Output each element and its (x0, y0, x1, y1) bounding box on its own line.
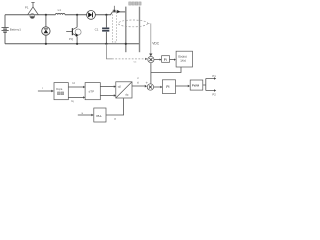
svg-text:PWM: PWM (192, 84, 200, 88)
inductor L1 (55, 13, 65, 14)
current sensor on dc link (113, 6, 120, 14)
inverter bus bar right (139, 7, 141, 53)
wire box2 to box3 top (100, 86, 114, 88)
block G(s) (176, 51, 192, 67)
svg-text:Battery1: Battery1 (10, 27, 22, 31)
capacitor C1 (102, 28, 109, 32)
wire VDC sense vertical (150, 23, 152, 54)
node junction bottom C1 branch (105, 43, 107, 45)
wire Pi to G (170, 59, 175, 61)
svg-text:C1: C1 (95, 27, 99, 31)
svg-text:dTP: dTP (89, 89, 95, 93)
wire diode branch lower (45, 35, 47, 44)
svg-text:P1: P1 (25, 5, 29, 9)
svg-text:αβ: αβ (118, 85, 122, 89)
wire C1 upper (105, 15, 107, 28)
node junction bottom transistor branch (76, 43, 78, 45)
wire lower sum to PI (154, 86, 161, 88)
block PWM (190, 80, 203, 90)
wire transistor emitter (76, 36, 78, 43)
dashed gate signal box (112, 10, 116, 42)
wire dc voltage feedback (106, 44, 112, 59)
arrowhead VDC (149, 54, 152, 57)
wire box1 to box2 bottom (68, 96, 84, 98)
wire PWM outputs (203, 79, 215, 91)
svg-text:1/(s): 1/(s) (180, 58, 186, 62)
svg-text:PI: PI (166, 85, 169, 89)
wire bottom rail (5, 43, 140, 45)
wire PLL output to box3 (106, 98, 124, 115)
block PLL (94, 108, 106, 122)
battery Battery1 (2, 28, 9, 32)
diode D1 in circle (42, 27, 50, 35)
node junction top diode branch (45, 14, 47, 16)
block Pi (162, 56, 170, 63)
node junction bottom bar (125, 43, 127, 45)
wire sum to Pi (154, 59, 160, 61)
svg-text:Dqra: Dqra (56, 87, 63, 91)
block filter (box2) (85, 83, 100, 100)
svg-text:VDC: VDC (152, 42, 160, 46)
svg-text:dq: dq (125, 92, 129, 96)
measurement ellipse (118, 20, 147, 27)
wire box1 to box2 top (68, 86, 84, 88)
wire diode branch upper (45, 15, 47, 27)
svg-text:L1: L1 (58, 8, 62, 12)
wire battery left verticals (4, 15, 6, 44)
svg-text:Pi: Pi (164, 58, 167, 62)
svg-text:PLL: PLL (97, 114, 103, 118)
node junction top transistor branch (76, 14, 78, 16)
svg-text:P2: P2 (212, 92, 216, 96)
wire box2 to box3 bottom (100, 95, 114, 97)
wire sum upper to sum lower (150, 63, 152, 84)
breaker P1 (28, 3, 39, 19)
wire top rail inductor to diode circle (65, 14, 87, 16)
diode D2 in circle inline (87, 11, 96, 20)
block park transform (box3) (116, 82, 132, 98)
wire top rail diode circle to step (96, 12, 126, 15)
node junction bottom diode branch (45, 43, 47, 45)
inverter bus bar left (125, 7, 127, 53)
wire box3 to lower sum (132, 85, 145, 87)
block PI (162, 80, 175, 94)
node junction top C1 branch (105, 14, 107, 16)
label three-phase grid (129, 2, 141, 5)
wire G feedback down-left (151, 67, 181, 73)
wire PLL input (78, 114, 92, 116)
wire top rail from battery to inductor (5, 14, 55, 16)
svg-text:P1: P1 (212, 74, 216, 78)
dashed link to VDC (148, 22, 151, 24)
block dq transform (box1) (54, 83, 68, 100)
wire input i (38, 90, 52, 92)
summing junction lower (146, 82, 154, 91)
wire PI to PWM (176, 85, 189, 87)
summing junction upper (148, 57, 154, 63)
transistor PQ (66, 27, 81, 37)
wire C1 lower (105, 32, 107, 44)
wire transistor collector (76, 15, 78, 27)
